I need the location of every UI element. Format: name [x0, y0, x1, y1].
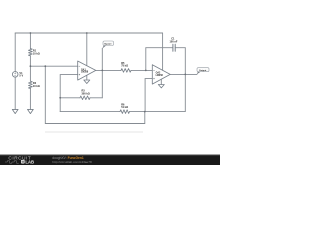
svg-text:300 kΩ: 300 kΩ — [82, 92, 90, 95]
svg-text:75 kΩ: 75 kΩ — [121, 65, 128, 68]
svg-text:Square: Square — [104, 43, 112, 45]
svg-text:doughXV: FuncGen1: doughXV: FuncGen1 — [52, 156, 84, 160]
svg-text:LAB: LAB — [25, 159, 34, 164]
svg-text:http://circuitlab.com/c43ae78: http://circuitlab.com/c43ae78 — [52, 160, 92, 164]
svg-text:51 kΩ: 51 kΩ — [121, 106, 128, 109]
svg-text:10 kΩ: 10 kΩ — [33, 85, 40, 88]
svg-text:LM358: LM358 — [156, 75, 164, 77]
svg-text:LM358: LM358 — [81, 72, 89, 74]
svg-text:5 V: 5 V — [19, 75, 23, 78]
svg-text:10 kΩ: 10 kΩ — [33, 52, 40, 55]
svg-text:100 nF: 100 nF — [169, 40, 177, 43]
